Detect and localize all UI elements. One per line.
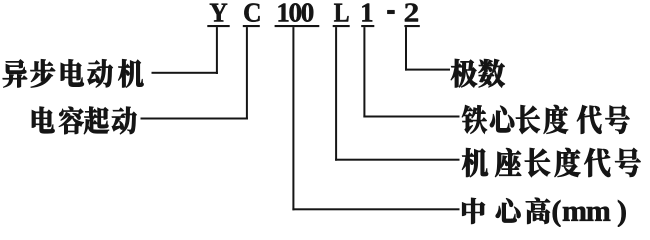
code number 100	[279, 3, 314, 22]
wire vertical from Y underline	[216, 27, 218, 74]
label 异步电动机 (asynchronous motor)	[3, 59, 144, 87]
wire horizontal to label 中心高(mm)	[292, 208, 459, 210]
wire vertical from L underline	[335, 27, 337, 161]
underline under 2	[404, 25, 419, 27]
label 铁心长度代号 (core length code)	[462, 105, 630, 134]
wire horizontal to label 电容起动	[141, 118, 248, 120]
underline under 1	[361, 25, 374, 27]
code letter Y	[210, 4, 228, 22]
wire horizontal to label 铁心长度代号	[363, 116, 459, 118]
label 机座长度代号 (frame length code)	[462, 148, 640, 177]
code letter L	[334, 4, 349, 22]
hyphen between 1 and 2	[387, 10, 394, 14]
underline under C	[243, 25, 260, 27]
code letter C	[244, 3, 259, 21]
underline under 100	[275, 25, 320, 27]
label (mm) unit	[553, 200, 626, 227]
wire horizontal to label 机座长度代号	[335, 159, 459, 161]
code number 2	[405, 3, 418, 21]
wire horizontal to label 极数	[405, 69, 450, 71]
code number 1	[362, 4, 372, 22]
wire horizontal to label 异步电动机	[152, 72, 218, 74]
wire vertical from 1 underline	[363, 27, 365, 117]
label 电容起动 (capacitor start)	[32, 107, 137, 134]
label 中心高(mm) (centre height mm)	[462, 198, 550, 224]
label 极数 (number of poles)	[451, 59, 505, 87]
wire vertical from 2 underline	[405, 27, 407, 71]
underline under L	[333, 25, 350, 27]
underline under Y	[207, 25, 229, 27]
wire vertical from C underline	[246, 27, 248, 119]
wire vertical from 100 underline	[292, 27, 294, 210]
